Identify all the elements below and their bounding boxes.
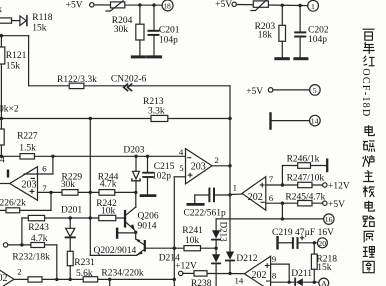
title char hong [364,56,375,66]
svg-text:15k: 15k [6,62,20,72]
diode D201 [69,218,71,228]
svg-text:15k: 15k [317,263,332,273]
pad 5 [310,85,321,96]
svg-text:+5V: +5V [246,87,263,97]
resistor R213 [151,115,168,121]
op1 minus mark [31,177,36,179]
svg-text:4.7k: 4.7k [100,180,117,190]
title char nian [363,42,375,54]
svg-text:5.6k: 5.6k [76,269,93,279]
op-amp U202a [242,177,266,211]
wire pin7 row [266,184,323,186]
svg-text:C215: C215 [154,162,175,172]
wire output pin1 [230,193,242,195]
title char bai [363,29,375,40]
wire R227/D203 row [1,155,185,157]
svg-text:D201: D201 [61,206,82,216]
transistor Q202 [135,232,137,239]
resistor R232 [31,243,45,248]
svg-text:8: 8 [272,270,277,280]
title char ban [363,186,375,197]
svg-text:R241: R241 [182,226,203,236]
svg-text:7: 7 [42,183,47,193]
op3 minus mark [261,201,265,203]
svg-text:R246/1k: R246/1k [287,154,320,164]
wire Q202 base / R241 row [146,247,216,249]
resistor R234 [83,277,98,282]
svg-text:D213: D213 [219,222,229,242]
svg-text:102p: 102p [152,172,171,182]
op-amp U202b [244,256,270,286]
svg-text:18: 18 [163,1,171,10]
wire pin8 [271,281,295,283]
wire R246 branch [281,166,283,186]
wire top-left input row [0,20,20,22]
svg-text:5: 5 [313,86,317,95]
resistor R243 [28,215,44,220]
svg-text:C219 47µF 16V: C219 47µF 16V [272,228,334,238]
title char ci [363,141,375,152]
svg-text:0k×2: 0k×2 [0,105,19,115]
svg-text:1: 1 [311,2,315,11]
resistor R247 [298,182,312,187]
diode (R118 row buffer) [20,16,26,26]
diode D214 [215,248,217,254]
svg-text:D211: D211 [291,269,312,279]
title char li [363,247,375,258]
wire output stub [0,183,10,185]
pad A [319,278,329,286]
ground under C215 [141,194,155,197]
thermistor [253,1,268,7]
title char zhu [363,171,374,182]
svg-text:R232/18k: R232/18k [12,253,50,263]
capacitor C202 [299,6,301,32]
diode D212 [226,252,234,260]
resistor (cut, x2 pair) [0,129,4,145]
svg-text:30k: 30k [61,180,76,190]
resistor R218 [313,243,315,254]
svg-text:OCF-18D: OCF-18D [360,68,371,117]
svg-text:CN202-6: CN202-6 [111,74,147,84]
ground [148,55,161,58]
svg-text:+12V: +12V [175,261,197,271]
wire vertical bus mid [89,119,91,256]
wire pin9 [271,263,290,265]
wire bottom row [14,278,174,280]
svg-text:2: 2 [215,155,219,165]
diode D213 [215,219,217,230]
wire R243/R242 row [22,217,124,219]
svg-text:4.7k: 4.7k [31,234,48,244]
terminal circle R232 input [3,243,7,247]
svg-text:6: 6 [269,193,274,203]
plus mark C219 [300,237,305,239]
svg-text:204: 204 [0,156,5,166]
svg-text:D203: D203 [123,146,144,156]
svg-text:7: 7 [269,174,274,184]
svg-text:4: 4 [179,147,184,157]
resistor R226/2k [6,208,20,213]
svg-text:A: A [321,279,327,286]
resistor R227 [20,154,35,159]
resistor R241 [184,246,201,251]
svg-text:+12V: +12V [328,182,350,192]
wire left branch [0,35,29,37]
svg-text:R226/2k: R226/2k [0,199,26,209]
op-amp U203b [186,149,213,184]
svg-text:16: 16 [325,215,333,224]
node [0,34,3,37]
wire pin5 vertical [173,177,175,286]
svg-text:202: 202 [0,273,8,284]
op5 minus mark [266,280,270,282]
ground [276,57,288,60]
capacitor C219 row [276,237,278,248]
wire pin5 [174,176,185,178]
svg-text:C201: C201 [159,26,180,36]
svg-text:202: 202 [248,192,263,203]
svg-text:203: 203 [191,162,206,173]
svg-text:R234/220k: R234/220k [101,269,143,279]
title char dian2 [365,201,374,211]
node [0,117,3,120]
svg-text:R245/4.7k: R245/4.7k [285,192,325,202]
resistor (bottom, cut label) [28,277,42,282]
ground (sideways) at Q206 emitter [116,228,118,239]
+5V pad5 row [268,88,273,93]
pad 1 [308,0,319,11]
svg-text:6: 6 [42,164,47,174]
op1 plus mark [30,190,35,192]
capacitor C222 [194,195,196,203]
resistor R231 [67,251,73,265]
resistor R245 [298,201,312,206]
pad14 row with bar [269,113,271,128]
ground [132,55,144,58]
svg-text:10k: 10k [185,236,200,246]
resistor R238 [194,271,207,276]
svg-text:9: 9 [272,254,277,264]
svg-text:C222/561p: C222/561p [184,209,226,219]
resistor R229 [62,190,78,196]
wire pin6 row [266,202,323,204]
op5 plus mark [265,265,270,267]
svg-text:5k: 5k [0,5,2,15]
ground [295,57,307,60]
capacitor plate (cut, C204) [7,170,9,178]
svg-text:+5V: +5V [66,0,83,10]
resistor R203 [281,5,283,25]
diode D211 [294,278,296,286]
svg-text:18k: 18k [258,30,273,40]
svg-text:R121: R121 [6,51,27,61]
zener D203 [135,156,137,171]
transistor Q206 [124,210,126,228]
svg-text:104p: 104p [159,35,178,45]
svg-text:D212: D212 [236,254,257,264]
svg-text:203: 203 [22,180,37,191]
wire R232 row [8,244,57,246]
pad 20 [317,238,327,248]
svg-text:R227: R227 [17,131,38,141]
resistor R244 [99,190,115,196]
op-amp U203a [10,167,38,201]
title char yuan [364,231,375,242]
+5V feed 1 top [90,3,94,7]
svg-text:R231: R231 [74,258,95,268]
resistor R204 [139,5,141,24]
thermistor [111,2,125,8]
op2 plus mark [188,174,193,176]
op-amp U202c bottom-left (cut) [0,267,14,286]
terminal +5V [323,201,327,205]
wire pin7 row [38,191,136,193]
resistor R121 [0,47,5,64]
svg-text:R118: R118 [32,13,52,23]
svg-text:30k: 30k [114,25,129,35]
svg-text:Q202/9014: Q202/9014 [94,246,137,256]
svg-text:R213: R213 [143,97,164,107]
svg-text:+5V: +5V [328,200,345,210]
svg-text:10k: 10k [101,206,116,216]
title char lu2 [363,216,375,227]
op3 plus mark [260,184,265,186]
svg-text:R122/3.3k: R122/3.3k [57,75,97,85]
svg-text:14: 14 [235,275,244,285]
capacitor C215 [147,156,149,172]
title char dian [365,125,374,135]
wire R238 row [183,272,245,274]
wire down to R232 row [21,218,23,245]
svg-text:+5V: +5V [215,0,232,10]
terminal +12V left [179,271,183,275]
wire to pad16 [281,203,283,219]
+5V feed 2 top [232,2,236,6]
resistor R242 [99,215,116,220]
node [89,117,92,120]
terminal +12V [323,183,327,187]
svg-text:14: 14 [311,117,319,126]
pad 14 [310,115,321,126]
svg-text:5: 5 [179,163,184,173]
feedback R226 wire [50,192,52,210]
connector chevrons CN202-6 [124,84,128,91]
op2 minus mark [187,157,191,159]
wire left-edge vertical [0,36,2,157]
wire down [56,245,58,280]
svg-text:104p: 104p [308,35,327,45]
wire pin6 [24,173,53,175]
svg-text:2: 2 [17,266,21,276]
wire output pin2 [212,165,230,167]
svg-text:R243: R243 [28,223,49,233]
title char tu [363,261,374,272]
title char lu [363,155,375,166]
wire main vertical bus right [229,86,231,252]
svg-text:1: 1 [233,182,237,192]
wire vertical to R122 row [28,36,30,86]
svg-text:20: 20 [318,239,326,248]
resistor R122 [69,83,84,88]
svg-text:202: 202 [252,270,267,281]
svg-text:9014: 9014 [138,222,157,232]
svg-text:Q206: Q206 [138,211,159,221]
wire R213 row [1,118,230,120]
pad 16 [324,214,334,224]
wire CN202-6 row [29,85,230,87]
svg-text:R247/10k: R247/10k [287,174,325,184]
svg-text:3.3k: 3.3k [148,106,165,116]
terminator bar R246 [326,160,328,171]
svg-text:15k: 15k [32,24,47,34]
pad 18 [162,0,173,11]
resistor (cut at left edge) [0,18,12,23]
svg-text:R238: R238 [191,279,212,286]
resistor R246 [298,163,311,169]
capacitor C201 [153,5,155,30]
svg-text:1.5k: 1.5k [19,143,36,153]
